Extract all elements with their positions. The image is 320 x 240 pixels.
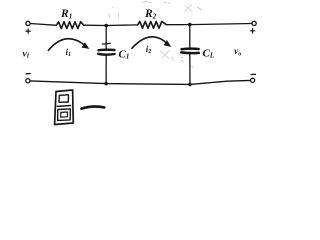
plus sign input — [26, 29, 30, 33]
node C junction bottom of C1 — [104, 82, 108, 86]
node B junction — [188, 23, 192, 27]
wire R1 to node A — [84, 24, 106, 26]
capacitor CL — [181, 25, 199, 85]
svg-text:R2: R2 — [144, 8, 157, 21]
plus sign output — [250, 29, 254, 33]
svg-text:i1: i1 — [66, 47, 72, 58]
wire node B to output — [190, 24, 252, 25]
caption character tu (figure) — [55, 90, 74, 125]
wire R2 to node B — [166, 24, 189, 26]
resistor R1 — [56, 22, 83, 29]
terminal input top — [26, 21, 30, 25]
mesh current arrow i2 — [132, 37, 171, 49]
resistor R2 — [138, 21, 167, 28]
wire bottom — [30, 80, 251, 84]
node A junction — [104, 24, 108, 28]
svg-text:vi: vi — [23, 49, 30, 59]
wire node A to R2 — [106, 24, 137, 27]
terminal output top — [252, 21, 256, 25]
mesh current arrow i1 — [48, 39, 89, 51]
minus sign output — [251, 73, 255, 75]
node D junction bottom of CL — [188, 83, 192, 87]
svg-text:C1: C1 — [119, 49, 130, 61]
svg-text:CL: CL — [203, 48, 215, 60]
svg-text:R1: R1 — [60, 8, 72, 21]
terminal input bottom — [26, 79, 30, 83]
minus sign input — [26, 73, 30, 75]
svg-text:i2: i2 — [146, 44, 152, 55]
svg-text:vo: vo — [234, 47, 241, 57]
caption character yi (one) — [82, 107, 105, 109]
wire top left — [30, 24, 56, 26]
terminal output bottom — [251, 78, 255, 82]
capacitor C1 — [98, 26, 114, 84]
